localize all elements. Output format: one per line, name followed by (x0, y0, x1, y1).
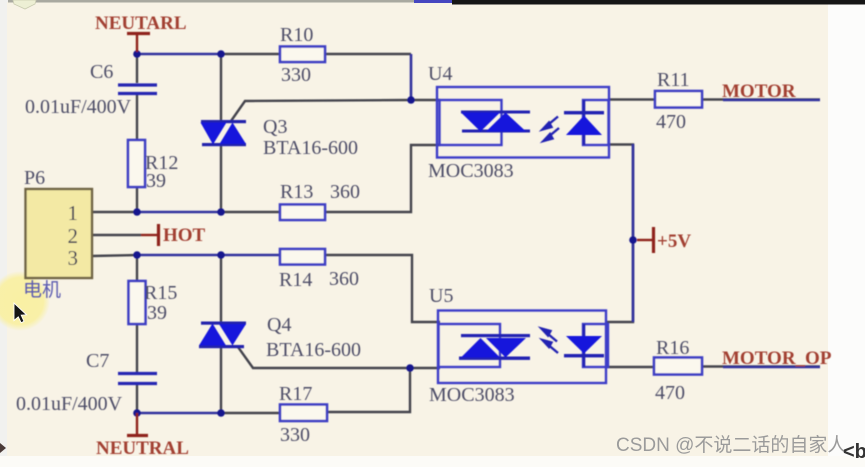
svg-text:C7: C7 (86, 350, 109, 372)
svg-text:MOC3083: MOC3083 (428, 160, 514, 182)
svg-text:MOTOR_OP: MOTOR_OP (722, 348, 832, 369)
svg-text:470: 470 (655, 382, 685, 404)
svg-text:C6: C6 (90, 61, 113, 83)
svg-text:Q3: Q3 (263, 116, 287, 138)
svg-text:BTA16-600: BTA16-600 (263, 137, 358, 159)
svg-text:R16: R16 (656, 337, 689, 359)
svg-text:U4: U4 (428, 63, 452, 85)
svg-text:0.01uF/400V: 0.01uF/400V (16, 393, 123, 415)
svg-text:MOC3083: MOC3083 (429, 384, 515, 406)
svg-text:1: 1 (68, 201, 79, 225)
svg-text:R17: R17 (279, 383, 312, 405)
svg-text:360: 360 (330, 181, 360, 203)
svg-text:330: 330 (280, 424, 310, 446)
svg-text:0.01uF/400V: 0.01uF/400V (25, 96, 132, 118)
svg-text:BTA16-600: BTA16-600 (266, 339, 361, 361)
svg-text:R15: R15 (144, 282, 177, 304)
svg-text:Q4: Q4 (267, 314, 291, 336)
svg-text:R13: R13 (280, 181, 313, 203)
svg-text:R14: R14 (279, 269, 312, 291)
svg-text:NEUTRAL: NEUTRAL (96, 438, 189, 459)
svg-text:330: 330 (281, 64, 311, 86)
svg-text:U5: U5 (429, 285, 453, 307)
svg-text:R11: R11 (657, 69, 690, 91)
svg-text:P6: P6 (24, 167, 45, 189)
svg-text:+5V: +5V (657, 231, 691, 252)
svg-text:R10: R10 (280, 24, 313, 46)
svg-text:MOTOR: MOTOR (722, 81, 796, 102)
svg-text:360: 360 (329, 268, 359, 290)
svg-text:39: 39 (146, 170, 166, 192)
svg-text:3: 3 (68, 246, 79, 270)
svg-text:HOT: HOT (163, 225, 206, 246)
svg-text:39: 39 (147, 302, 167, 324)
svg-text:470: 470 (656, 111, 686, 133)
svg-text:<b: <b (843, 441, 865, 463)
svg-text:电机: 电机 (23, 279, 61, 301)
svg-text:NEUTARL: NEUTARL (95, 13, 187, 34)
svg-text:CSDN @不说二话的自家人: CSDN @不说二话的自家人 (616, 434, 846, 456)
svg-text:2: 2 (68, 224, 79, 248)
